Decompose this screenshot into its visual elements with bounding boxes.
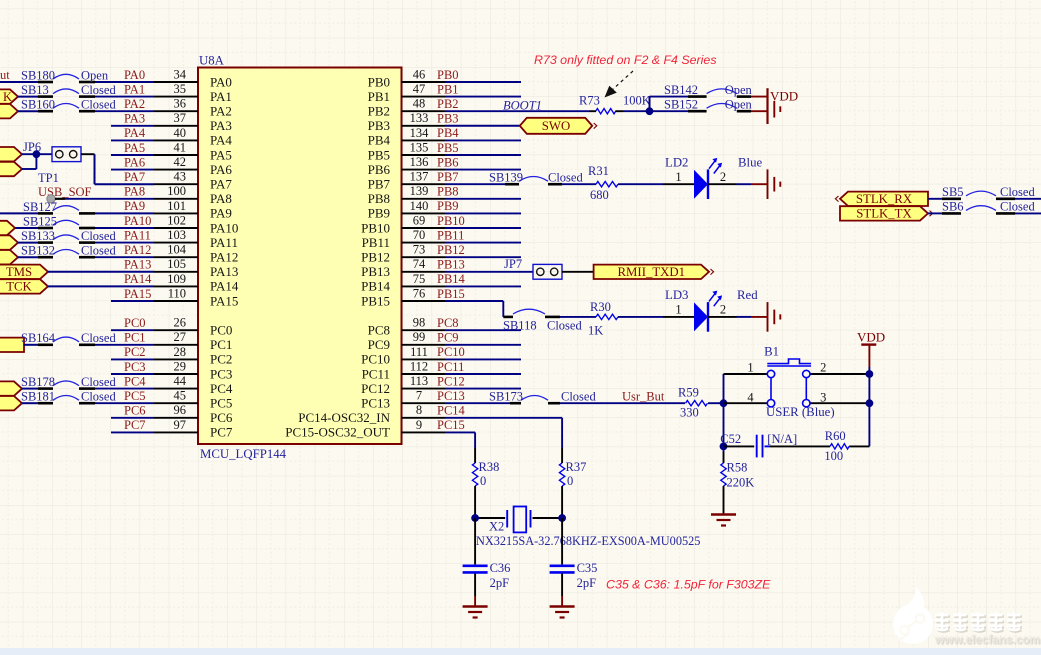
svg-text:Closed: Closed xyxy=(81,98,116,112)
svg-text:111: 111 xyxy=(410,345,428,359)
svg-text:R37: R37 xyxy=(566,460,587,474)
svg-text:Closed: Closed xyxy=(1000,200,1035,214)
svg-text:SB133: SB133 xyxy=(21,229,55,243)
svg-text:2: 2 xyxy=(720,170,726,184)
svg-text:PA3: PA3 xyxy=(124,112,145,126)
svg-text:VDD: VDD xyxy=(770,89,798,104)
svg-text:VDD: VDD xyxy=(857,330,885,345)
svg-text:35: 35 xyxy=(174,82,187,96)
svg-text:PA8: PA8 xyxy=(124,185,145,199)
svg-text:103: 103 xyxy=(167,228,186,242)
svg-text:76: 76 xyxy=(413,286,426,300)
svg-text:Closed: Closed xyxy=(561,390,596,404)
svg-text:2pF: 2pF xyxy=(577,576,597,590)
svg-text:PC12: PC12 xyxy=(437,374,465,388)
svg-text:ut: ut xyxy=(0,68,10,82)
svg-text:96: 96 xyxy=(174,403,187,417)
svg-text:PC9: PC9 xyxy=(437,331,459,345)
svg-text:Closed: Closed xyxy=(81,229,116,243)
svg-text:NX3215SA-32.768KHZ-EXS00A-MU00: NX3215SA-32.768KHZ-EXS00A-MU00525 xyxy=(476,534,700,548)
svg-text:330: 330 xyxy=(680,406,699,420)
svg-text:42: 42 xyxy=(174,155,187,169)
svg-text:SB13: SB13 xyxy=(21,83,49,97)
svg-text:69: 69 xyxy=(413,213,426,227)
svg-text:PA5: PA5 xyxy=(124,141,145,155)
svg-text:46: 46 xyxy=(413,67,426,81)
svg-text:PA6: PA6 xyxy=(210,162,232,177)
svg-text:PB6: PB6 xyxy=(437,155,459,169)
svg-text:PC15-OSC32_OUT: PC15-OSC32_OUT xyxy=(285,425,390,440)
svg-text:PA1: PA1 xyxy=(124,82,145,96)
svg-text:www.elecfans.com: www.elecfans.com xyxy=(934,633,1040,647)
svg-text:PC14-OSC32_IN: PC14-OSC32_IN xyxy=(298,410,390,425)
svg-text:PC2: PC2 xyxy=(210,352,232,367)
svg-text:Closed: Closed xyxy=(81,244,116,258)
svg-text:K: K xyxy=(3,90,12,104)
svg-text:PB2: PB2 xyxy=(368,104,390,119)
svg-text:PC11: PC11 xyxy=(437,360,464,374)
svg-text:134: 134 xyxy=(410,126,430,140)
svg-text:7: 7 xyxy=(416,389,422,403)
svg-text:TP1: TP1 xyxy=(38,171,59,185)
svg-text:SB125: SB125 xyxy=(23,214,57,228)
svg-text:220K: 220K xyxy=(727,476,755,490)
svg-text:75: 75 xyxy=(413,272,426,286)
svg-text:R73 only fitted on F2 & F4 Ser: R73 only fitted on F2 & F4 Series xyxy=(534,53,717,67)
svg-text:PA11: PA11 xyxy=(210,235,238,250)
svg-text:PA4: PA4 xyxy=(210,133,232,148)
svg-text:PB2: PB2 xyxy=(437,97,459,111)
svg-text:113: 113 xyxy=(410,374,428,388)
svg-text:PA1: PA1 xyxy=(210,89,232,104)
svg-text:8: 8 xyxy=(416,403,422,417)
svg-text:1: 1 xyxy=(675,303,681,317)
svg-text:PC5: PC5 xyxy=(124,389,146,403)
svg-text:PC3: PC3 xyxy=(124,360,146,374)
svg-text:JP6: JP6 xyxy=(23,140,41,154)
svg-text:C35: C35 xyxy=(577,561,598,575)
svg-text:SB6: SB6 xyxy=(942,200,964,214)
svg-text:R60: R60 xyxy=(825,429,846,443)
svg-text:PA0: PA0 xyxy=(210,74,232,89)
svg-text:PA7: PA7 xyxy=(124,170,145,184)
svg-text:PA7: PA7 xyxy=(210,177,232,192)
svg-text:PC2: PC2 xyxy=(124,345,146,359)
svg-text:Closed: Closed xyxy=(547,319,582,333)
svg-text:PB8: PB8 xyxy=(437,185,459,199)
svg-text:PC5: PC5 xyxy=(210,396,232,411)
svg-text:PA10: PA10 xyxy=(210,220,238,235)
svg-text:X2: X2 xyxy=(489,520,504,534)
svg-text:JP7: JP7 xyxy=(504,257,522,271)
svg-text:PC10: PC10 xyxy=(361,352,390,367)
svg-text:PB3: PB3 xyxy=(437,112,459,126)
svg-text:TMS: TMS xyxy=(6,265,32,279)
svg-text:PB12: PB12 xyxy=(437,243,465,257)
svg-text:PB11: PB11 xyxy=(437,228,464,242)
svg-text:136: 136 xyxy=(410,155,429,169)
svg-text:PC0: PC0 xyxy=(210,323,232,338)
svg-text:40: 40 xyxy=(174,126,187,140)
svg-text:100: 100 xyxy=(824,449,843,463)
svg-text:PB4: PB4 xyxy=(437,126,459,140)
svg-text:PA12: PA12 xyxy=(210,250,238,265)
svg-text:SB181: SB181 xyxy=(21,390,55,404)
svg-text:36: 36 xyxy=(174,97,187,111)
svg-text:1K: 1K xyxy=(588,324,603,338)
svg-text:97: 97 xyxy=(174,418,187,432)
svg-text:Open: Open xyxy=(725,98,753,112)
svg-text:Closed: Closed xyxy=(1000,185,1035,199)
svg-text:USB_SOF: USB_SOF xyxy=(38,185,92,199)
svg-text:105: 105 xyxy=(167,257,186,271)
svg-text:LD2: LD2 xyxy=(665,156,688,170)
svg-text:PB3: PB3 xyxy=(368,118,390,133)
svg-text:PB14: PB14 xyxy=(361,279,390,294)
svg-text:PA14: PA14 xyxy=(124,272,152,286)
svg-text:RMII_TXD1: RMII_TXD1 xyxy=(618,265,686,279)
svg-text:Closed: Closed xyxy=(81,83,116,97)
svg-text:26: 26 xyxy=(174,316,187,330)
svg-text:Open: Open xyxy=(81,68,109,82)
svg-text:47: 47 xyxy=(413,82,426,96)
svg-text:PC4: PC4 xyxy=(124,374,146,388)
svg-text:PA13: PA13 xyxy=(124,258,151,272)
svg-text:PC12: PC12 xyxy=(361,381,390,396)
svg-text:PB1: PB1 xyxy=(437,82,459,96)
svg-text:PB5: PB5 xyxy=(368,147,390,162)
svg-text:98: 98 xyxy=(413,316,426,330)
svg-text:C52: C52 xyxy=(720,432,741,446)
svg-text:29: 29 xyxy=(174,359,187,373)
svg-text:SB160: SB160 xyxy=(21,98,55,112)
svg-text:PB12: PB12 xyxy=(361,250,390,265)
svg-text:133: 133 xyxy=(410,111,429,125)
svg-text:PB5: PB5 xyxy=(437,141,459,155)
svg-text:[N/A]: [N/A] xyxy=(767,432,797,446)
svg-text:99: 99 xyxy=(413,330,426,344)
svg-text:PC14: PC14 xyxy=(437,404,466,418)
svg-text:139: 139 xyxy=(410,184,429,198)
svg-text:SWO: SWO xyxy=(542,119,570,133)
svg-text:PC13: PC13 xyxy=(361,396,390,411)
svg-text:1: 1 xyxy=(675,170,681,184)
svg-text:R38: R38 xyxy=(479,460,500,474)
svg-text:PA9: PA9 xyxy=(210,206,232,221)
svg-text:PB4: PB4 xyxy=(368,133,391,148)
svg-text:140: 140 xyxy=(410,199,429,213)
svg-text:PB10: PB10 xyxy=(437,214,465,228)
svg-text:SB5: SB5 xyxy=(942,185,964,199)
svg-text:PA15: PA15 xyxy=(210,293,238,308)
svg-text:PC6: PC6 xyxy=(210,410,233,425)
svg-text:100K: 100K xyxy=(623,94,651,108)
svg-text:PA12: PA12 xyxy=(124,243,151,257)
svg-text:Closed: Closed xyxy=(81,390,116,404)
svg-text:2: 2 xyxy=(720,303,726,317)
svg-text:104: 104 xyxy=(167,243,187,257)
svg-text:4: 4 xyxy=(747,391,754,405)
svg-text:PC15: PC15 xyxy=(437,418,465,432)
svg-text:PA15: PA15 xyxy=(124,287,151,301)
svg-text:9: 9 xyxy=(416,418,422,432)
svg-text:PB9: PB9 xyxy=(368,206,390,221)
svg-text:1: 1 xyxy=(747,361,753,375)
svg-text:MCU_LQFP144: MCU_LQFP144 xyxy=(200,447,287,461)
svg-text:SB132: SB132 xyxy=(21,244,55,258)
svg-text:PC7: PC7 xyxy=(210,425,233,440)
svg-text:STLK_RX: STLK_RX xyxy=(856,192,913,206)
svg-text:USER (Blue): USER (Blue) xyxy=(766,405,835,419)
svg-text:680: 680 xyxy=(590,188,609,202)
svg-text:PC1: PC1 xyxy=(210,337,232,352)
svg-text:STLK_TX: STLK_TX xyxy=(856,207,912,221)
svg-text:73: 73 xyxy=(413,243,426,257)
svg-text:PB15: PB15 xyxy=(361,293,390,308)
svg-text:TCK: TCK xyxy=(6,280,32,294)
svg-text:BOOT1: BOOT1 xyxy=(503,99,542,113)
svg-text:48: 48 xyxy=(413,97,426,111)
svg-text:U8A: U8A xyxy=(199,54,225,68)
svg-text:PC8: PC8 xyxy=(368,323,390,338)
svg-text:100: 100 xyxy=(167,184,186,198)
svg-text:135: 135 xyxy=(410,140,429,154)
svg-text:PA2: PA2 xyxy=(210,104,232,119)
svg-text:PA14: PA14 xyxy=(210,279,239,294)
svg-text:PC8: PC8 xyxy=(437,316,459,330)
svg-text:PB0: PB0 xyxy=(437,68,459,82)
svg-text:PB11: PB11 xyxy=(362,235,390,250)
svg-text:SB152: SB152 xyxy=(664,98,698,112)
svg-text:2pF: 2pF xyxy=(490,576,510,590)
svg-text:SB118: SB118 xyxy=(503,319,537,333)
svg-text:LD3: LD3 xyxy=(665,288,688,302)
svg-text:Red: Red xyxy=(737,288,758,302)
svg-text:PA9: PA9 xyxy=(124,199,145,213)
svg-text:PB10: PB10 xyxy=(361,220,390,235)
svg-text:PC9: PC9 xyxy=(368,337,390,352)
svg-text:PA8: PA8 xyxy=(210,191,232,206)
svg-text:PC1: PC1 xyxy=(124,331,146,345)
svg-text:PC3: PC3 xyxy=(210,366,232,381)
svg-text:PC7: PC7 xyxy=(124,418,146,432)
svg-text:PB14: PB14 xyxy=(437,272,466,286)
svg-text:PC13: PC13 xyxy=(437,389,465,403)
svg-text:0: 0 xyxy=(567,474,573,488)
svg-text:Usr_But: Usr_But xyxy=(622,390,665,404)
svg-text:SB180: SB180 xyxy=(21,68,55,82)
svg-text:C36: C36 xyxy=(490,561,511,575)
svg-text:R59: R59 xyxy=(678,386,699,400)
svg-text:74: 74 xyxy=(413,257,426,271)
svg-text:PB15: PB15 xyxy=(437,287,465,301)
svg-text:PA11: PA11 xyxy=(124,228,151,242)
svg-text:PC11: PC11 xyxy=(362,366,390,381)
svg-text:Open: Open xyxy=(725,83,753,97)
svg-text:PB8: PB8 xyxy=(368,191,390,206)
svg-text:PA10: PA10 xyxy=(124,214,151,228)
svg-text:Blue: Blue xyxy=(738,156,762,170)
svg-text:110: 110 xyxy=(168,286,186,300)
svg-text:45: 45 xyxy=(174,389,187,403)
svg-text:3: 3 xyxy=(820,391,826,405)
svg-text:SB139: SB139 xyxy=(489,171,523,185)
svg-text:101: 101 xyxy=(167,199,186,213)
svg-text:R30: R30 xyxy=(590,300,611,314)
svg-text:2: 2 xyxy=(820,361,826,375)
svg-text:37: 37 xyxy=(174,111,187,125)
svg-text:SB178: SB178 xyxy=(21,375,55,389)
svg-text:R73: R73 xyxy=(579,94,600,108)
svg-text:C35 & C36: 1.5pF for F303ZE: C35 & C36: 1.5pF for F303ZE xyxy=(606,578,771,592)
svg-text:27: 27 xyxy=(174,330,187,344)
svg-text:34: 34 xyxy=(174,67,187,81)
svg-text:PB13: PB13 xyxy=(437,258,465,272)
svg-text:SB127: SB127 xyxy=(23,200,57,214)
svg-text:PC6: PC6 xyxy=(124,404,146,418)
svg-text:109: 109 xyxy=(167,272,186,286)
svg-text:0: 0 xyxy=(480,474,486,488)
svg-text:PB0: PB0 xyxy=(368,74,390,89)
svg-text:Closed: Closed xyxy=(548,171,583,185)
svg-text:PB7: PB7 xyxy=(437,170,459,184)
svg-text:102: 102 xyxy=(167,213,186,227)
svg-text:44: 44 xyxy=(174,374,187,388)
svg-text:PA6: PA6 xyxy=(124,155,145,169)
svg-text:41: 41 xyxy=(174,140,187,154)
svg-text:SB164: SB164 xyxy=(21,331,56,345)
svg-text:112: 112 xyxy=(410,359,428,373)
svg-text:R31: R31 xyxy=(588,164,609,178)
svg-text:PB1: PB1 xyxy=(368,89,390,104)
svg-text:PA0: PA0 xyxy=(124,68,145,82)
svg-text:SB173: SB173 xyxy=(489,390,523,404)
svg-text:Closed: Closed xyxy=(81,375,116,389)
svg-text:Closed: Closed xyxy=(81,331,116,345)
svg-text:70: 70 xyxy=(413,228,426,242)
svg-text:43: 43 xyxy=(174,170,187,184)
svg-text:PA3: PA3 xyxy=(210,118,232,133)
svg-text:PC0: PC0 xyxy=(124,316,146,330)
svg-text:R58: R58 xyxy=(727,461,748,475)
svg-text:PB7: PB7 xyxy=(368,177,391,192)
svg-text:28: 28 xyxy=(174,345,187,359)
svg-text:PA2: PA2 xyxy=(124,97,145,111)
svg-text:PB6: PB6 xyxy=(368,162,391,177)
svg-text:SB142: SB142 xyxy=(664,83,698,97)
svg-text:PC4: PC4 xyxy=(210,381,233,396)
svg-text:PA5: PA5 xyxy=(210,147,232,162)
svg-text:PB9: PB9 xyxy=(437,199,459,213)
svg-text:PB13: PB13 xyxy=(361,264,390,279)
svg-text:PC10: PC10 xyxy=(437,345,465,359)
svg-text:B1: B1 xyxy=(764,345,779,359)
svg-text:137: 137 xyxy=(410,170,429,184)
svg-text:PA4: PA4 xyxy=(124,126,146,140)
svg-text:PA13: PA13 xyxy=(210,264,238,279)
